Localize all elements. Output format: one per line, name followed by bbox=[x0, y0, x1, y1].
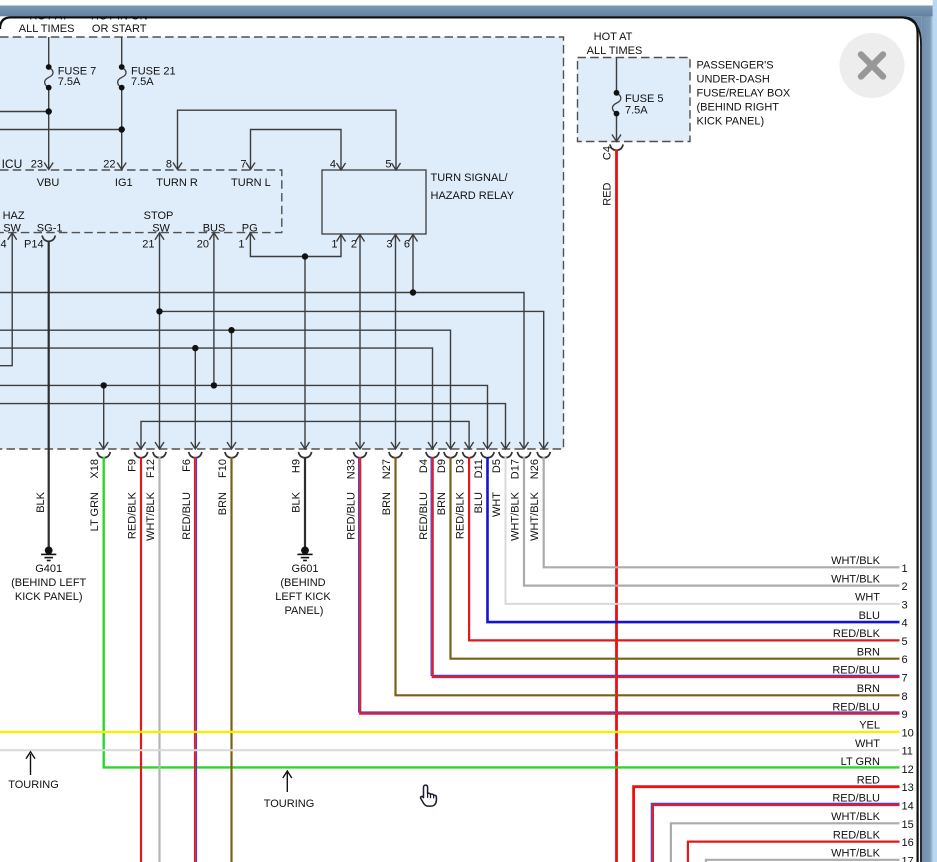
svg-text:BRN: BRN bbox=[857, 683, 880, 695]
svg-text:16: 16 bbox=[902, 837, 914, 849]
svg-text:LT GRN: LT GRN bbox=[841, 756, 880, 768]
wire relay pin6 down to bus A bbox=[412, 235, 414, 293]
connector F10 bbox=[225, 452, 238, 458]
wire X18 LT GRN to row 12 bbox=[104, 457, 900, 767]
node BUS/bus E bbox=[211, 382, 217, 388]
svg-text:SW: SW bbox=[3, 222, 21, 234]
wire SG-1 BLK to G401 bbox=[48, 241, 50, 548]
svg-text:SW: SW bbox=[152, 222, 170, 234]
connector D3 bbox=[463, 452, 476, 458]
arrow F6 bbox=[191, 442, 200, 449]
arrow pin22 bbox=[117, 163, 126, 170]
svg-text:ICU: ICU bbox=[2, 157, 23, 171]
svg-text:D9: D9 bbox=[436, 459, 448, 473]
ICU connector dashed box (inner) bbox=[0, 170, 282, 233]
svg-text:PG: PG bbox=[242, 222, 258, 234]
wire F10 drop bbox=[231, 330, 233, 448]
wire F9 RED/BLK bbox=[140, 457, 142, 862]
svg-text:21: 21 bbox=[142, 239, 154, 251]
wire TURN R pin8 to relay pin5 bbox=[178, 110, 397, 169]
svg-text:HOT AT: HOT AT bbox=[594, 31, 633, 43]
svg-text:4: 4 bbox=[1, 239, 7, 251]
svg-text:BLK: BLK bbox=[291, 491, 303, 512]
top blue-grey band bbox=[0, 6, 933, 17]
arrow pin23 bbox=[44, 163, 53, 170]
connector D11 bbox=[481, 452, 494, 458]
wire D3 RED/BLK to row 5 bbox=[469, 457, 899, 640]
wire fuse21 feed: HOT IN ON OR START down to pin 22 bbox=[121, 37, 123, 65]
svg-text:KICK PANEL): KICK PANEL) bbox=[15, 591, 83, 603]
svg-text:D11: D11 bbox=[473, 459, 485, 478]
svg-text:WHT/BLK: WHT/BLK bbox=[831, 848, 881, 860]
svg-text:15: 15 bbox=[902, 819, 914, 831]
right-side row labels and numbers bbox=[831, 555, 914, 862]
svg-text:7: 7 bbox=[240, 158, 246, 170]
arrow D3 bbox=[465, 442, 474, 449]
label TOURING (left) bbox=[8, 752, 59, 791]
grey internal wires bbox=[0, 37, 617, 448]
svg-text:WHT/BLK: WHT/BLK bbox=[831, 573, 881, 585]
svg-text:OR START: OR START bbox=[92, 23, 147, 35]
svg-text:WHT: WHT bbox=[855, 738, 880, 750]
connector D9 bbox=[444, 452, 457, 458]
svg-text:WHT: WHT bbox=[491, 492, 503, 517]
svg-text:RED: RED bbox=[857, 774, 880, 786]
arrow N26 bbox=[539, 442, 548, 449]
arrow D5 bbox=[501, 442, 510, 449]
wire row 14 RED/BLU bbox=[651, 803, 899, 862]
wire F6 drop bbox=[194, 348, 196, 448]
connector D4 bbox=[426, 452, 439, 458]
arrow pin7 bbox=[246, 163, 255, 170]
svg-text:WHT/BLK: WHT/BLK bbox=[831, 811, 881, 823]
wire row 15 WHT/BLK bbox=[671, 823, 900, 862]
node STOP SW/bus B bbox=[156, 308, 162, 314]
svg-text:17: 17 bbox=[902, 855, 914, 862]
ICU module dashed border bbox=[0, 37, 564, 449]
blue-grey corner patch (between outer page edge and band/column) bbox=[902, 16, 922, 46]
svg-text:WHT/BLK: WHT/BLK bbox=[529, 491, 541, 541]
svg-text:1: 1 bbox=[238, 239, 244, 251]
svg-text:20: 20 bbox=[197, 239, 209, 251]
wire relay pin3 to N27 bbox=[395, 235, 397, 449]
mouse cursor (hand pointer) bbox=[421, 785, 437, 806]
svg-text:LT GRN: LT GRN bbox=[89, 492, 101, 531]
svg-text:N33: N33 bbox=[346, 459, 358, 479]
svg-text:WHT/BLK: WHT/BLK bbox=[510, 491, 522, 541]
svg-text:D17: D17 bbox=[510, 459, 522, 479]
svg-text:KICK PANEL): KICK PANEL) bbox=[697, 116, 765, 128]
svg-text:BLU: BLU bbox=[859, 610, 880, 622]
svg-text:22: 22 bbox=[103, 158, 115, 170]
arrow relay pin2 (up) bbox=[356, 235, 365, 242]
node fuse7/branch bbox=[46, 108, 52, 114]
svg-text:BRN: BRN bbox=[381, 492, 393, 515]
arrow D9 bbox=[446, 442, 455, 449]
svg-text:IG1: IG1 bbox=[115, 177, 133, 189]
svg-text:2: 2 bbox=[351, 239, 357, 251]
svg-text:X18: X18 bbox=[89, 459, 101, 479]
svg-text:RED/BLU: RED/BLU bbox=[832, 665, 880, 677]
wire D17 WHT/BLK to row 2 bbox=[524, 457, 900, 586]
svg-text:SG-1: SG-1 bbox=[37, 222, 63, 234]
svg-text:(BEHIND LEFT: (BEHIND LEFT bbox=[11, 577, 86, 589]
node F10/bus C bbox=[228, 327, 234, 333]
svg-text:TURN L: TURN L bbox=[231, 177, 271, 189]
svg-text:WHT/BLK: WHT/BLK bbox=[831, 555, 881, 567]
arrow D17 bbox=[520, 442, 529, 449]
svg-text:3: 3 bbox=[386, 239, 392, 251]
arrow pin8 bbox=[173, 163, 182, 170]
svg-text:5: 5 bbox=[385, 158, 391, 170]
svg-text:BRN: BRN bbox=[436, 492, 448, 515]
svg-text:4: 4 bbox=[902, 618, 908, 630]
svg-text:HAZARD RELAY: HAZARD RELAY bbox=[431, 190, 515, 202]
wire bus C y330.2 to D9 bbox=[0, 330, 451, 448]
svg-text:BLK: BLK bbox=[35, 491, 47, 512]
svg-text:F6: F6 bbox=[181, 459, 193, 472]
wire relay pin2 to N33 bbox=[359, 235, 361, 449]
fuse F7 symbol bbox=[45, 67, 53, 87]
svg-text:TOURING: TOURING bbox=[264, 798, 315, 810]
node F6/bus D bbox=[192, 345, 198, 351]
svg-text:D4: D4 bbox=[418, 459, 430, 473]
svg-text:UNDER-DASH: UNDER-DASH bbox=[697, 74, 770, 86]
svg-text:WHT/BLK: WHT/BLK bbox=[145, 491, 157, 541]
svg-text:ALL TIMES: ALL TIMES bbox=[19, 23, 75, 35]
node pin6/bus A bbox=[410, 289, 416, 295]
arrow N27 bbox=[391, 442, 400, 449]
wire F10 BRN bbox=[230, 457, 232, 862]
svg-text:RED/BLU: RED/BLU bbox=[832, 793, 880, 805]
arrow D11 bbox=[483, 442, 492, 449]
svg-text:7: 7 bbox=[902, 673, 908, 685]
wire N26 WHT/BLK to row 1 bbox=[544, 457, 900, 567]
svg-text:HAZ: HAZ bbox=[3, 210, 25, 222]
svg-text:(BEHIND: (BEHIND bbox=[280, 577, 325, 589]
svg-text:STOP: STOP bbox=[144, 210, 174, 222]
arrow HAZ SW pin4 (up) bbox=[8, 233, 17, 240]
connector cups at box bottom bbox=[42, 144, 623, 457]
arrow relay pin5 bbox=[392, 163, 401, 170]
junction dots bbox=[46, 108, 417, 388]
wire bus G y421.4: F9 to D3 bbox=[141, 421, 469, 448]
node X18/bus E bbox=[101, 382, 107, 388]
connector H9 bbox=[298, 452, 311, 458]
ground G401 bbox=[11, 547, 86, 603]
svg-text:FUSE/RELAY BOX: FUSE/RELAY BOX bbox=[697, 88, 791, 100]
wire row 16 RED/BLK bbox=[688, 842, 900, 862]
svg-text:23: 23 bbox=[31, 158, 43, 170]
wire fuse5 feed bbox=[616, 58, 618, 92]
svg-text:PASSENGER'S: PASSENGER'S bbox=[697, 60, 774, 72]
svg-text:RED/BLK: RED/BLK bbox=[455, 491, 467, 539]
arrow STOP SW pin21 (up) bbox=[155, 233, 164, 240]
svg-text:RED/BLU: RED/BLU bbox=[181, 492, 193, 540]
wire bus F y403.6 to D5 bbox=[0, 404, 506, 448]
svg-text:BRN: BRN bbox=[857, 646, 880, 658]
svg-text:(BEHIND RIGHT: (BEHIND RIGHT bbox=[697, 102, 780, 114]
svg-text:8: 8 bbox=[166, 158, 172, 170]
svg-text:5: 5 bbox=[902, 636, 908, 648]
wire N27 BRN to row 8 bbox=[396, 457, 900, 695]
labels: power feeds bbox=[19, 11, 791, 128]
wire bus D y348.1 to D4 bbox=[0, 348, 433, 448]
svg-text:TOURING: TOURING bbox=[8, 779, 59, 791]
wire HAZ SW pin4 exits left bbox=[0, 233, 12, 366]
svg-text:7.5A: 7.5A bbox=[625, 105, 648, 117]
connector F9 bbox=[134, 452, 147, 458]
wire F12 WHT/BLK bbox=[158, 457, 160, 862]
wire branch left at y111.5 bbox=[0, 111, 49, 113]
node fuse21/branch bbox=[119, 126, 125, 132]
wire X18 drop bbox=[103, 385, 105, 448]
wire row 17 WHT/BLK bbox=[706, 860, 900, 862]
svg-text:11: 11 bbox=[902, 746, 913, 758]
wire fuse7 feed: HOT AT ALL TIMES down to pin 23 bbox=[48, 37, 50, 65]
svg-text:G401: G401 bbox=[35, 563, 62, 575]
svg-text:BRN: BRN bbox=[217, 492, 229, 515]
wire D4 RED/BLU to row 7 bbox=[431, 457, 899, 675]
connector N26 bbox=[537, 452, 550, 458]
page second edge (paper curl) bbox=[904, 18, 921, 862]
svg-text:PANEL): PANEL) bbox=[285, 605, 324, 617]
svg-text:RED/BLU: RED/BLU bbox=[346, 492, 358, 540]
connector N27 bbox=[389, 452, 402, 458]
svg-text:H9: H9 bbox=[291, 459, 303, 473]
wire D9 BRN to row 6 bbox=[451, 457, 900, 659]
wire F6 RED/BLU bbox=[194, 457, 196, 862]
svg-text:RED/BLU: RED/BLU bbox=[418, 492, 430, 540]
svg-text:VBU: VBU bbox=[37, 177, 60, 189]
svg-text:RED/BLU: RED/BLU bbox=[832, 701, 880, 713]
wire F12 drop bbox=[159, 311, 161, 448]
wire bus A y292.5 to D17 bbox=[0, 293, 524, 449]
svg-text:4: 4 bbox=[330, 158, 336, 170]
svg-text:G601: G601 bbox=[292, 563, 319, 575]
connector F12 bbox=[153, 452, 166, 458]
arrow relay pin1 (up) bbox=[337, 235, 346, 242]
fuse F5 symbol bbox=[612, 93, 620, 113]
connector C4 bbox=[610, 144, 623, 150]
arrow BUS pin20 (up) bbox=[209, 233, 218, 240]
wire BUS pin20 drop bbox=[213, 233, 215, 385]
svg-text:TURN R: TURN R bbox=[156, 177, 198, 189]
labels: ICU connector bbox=[1, 157, 411, 251]
arrow fuse5 out bbox=[612, 135, 621, 142]
svg-text:F10: F10 bbox=[217, 459, 229, 478]
arrow relay pin6 (up) bbox=[409, 235, 418, 242]
ground G601 bbox=[275, 547, 331, 617]
svg-text:3: 3 bbox=[902, 599, 908, 611]
top white strip bbox=[0, 0, 933, 6]
right blue-grey column bbox=[922, 6, 933, 862]
wire D11 BLU to row 4 bbox=[488, 457, 900, 622]
svg-text:12: 12 bbox=[902, 764, 914, 776]
connector P14 / SG-1 bbox=[42, 236, 55, 242]
svg-text:N26: N26 bbox=[529, 459, 541, 479]
wire H9 drop from PG node bbox=[304, 257, 306, 449]
svg-text:RED: RED bbox=[602, 182, 614, 205]
svg-text:RED/BLK: RED/BLK bbox=[833, 829, 881, 841]
arrow D4 bbox=[428, 442, 437, 449]
svg-text:7.5A: 7.5A bbox=[131, 76, 154, 88]
wire bus E y385.4 to D11 bbox=[0, 385, 488, 448]
wire TURN L pin7 to relay pin4 bbox=[251, 130, 342, 170]
label TOURING (right) bbox=[264, 771, 315, 810]
wire row 11 WHT bbox=[0, 749, 900, 751]
svg-text:TURN SIGNAL/: TURN SIGNAL/ bbox=[431, 172, 509, 184]
svg-text:N27: N27 bbox=[381, 459, 393, 479]
relay box: TURN SIGNAL/HAZARD RELAY bbox=[322, 170, 426, 234]
svg-text:6: 6 bbox=[404, 239, 410, 251]
connector X18 bbox=[97, 452, 110, 458]
arrow N33 bbox=[356, 442, 365, 449]
svg-text:1: 1 bbox=[902, 563, 908, 575]
node PG/H9 bbox=[302, 253, 308, 259]
wire row 13 RED bbox=[634, 787, 900, 862]
connector F6 bbox=[189, 452, 202, 458]
wire D5 WHT to row 3 bbox=[506, 457, 900, 604]
svg-text:FUSE 5: FUSE 5 bbox=[625, 93, 664, 105]
svg-text:RED/BLK: RED/BLK bbox=[833, 628, 881, 640]
fuse F21 symbol bbox=[118, 67, 126, 87]
colored harness wires bbox=[0, 150, 900, 862]
wire PG pin1 to relay pin1 bbox=[250, 233, 341, 257]
svg-text:D3: D3 bbox=[455, 459, 467, 473]
connector N33 bbox=[353, 452, 366, 458]
wire N33 RED/BLU to row 9 bbox=[359, 457, 900, 712]
svg-text:9: 9 bbox=[902, 709, 908, 721]
arrow F12 bbox=[155, 442, 164, 449]
svg-text:14: 14 bbox=[902, 801, 914, 813]
connector D5 bbox=[499, 452, 512, 458]
rotated connector labels bbox=[35, 146, 613, 541]
svg-text:C4: C4 bbox=[602, 146, 614, 160]
svg-text:2: 2 bbox=[902, 581, 908, 593]
right light-blue strip bbox=[933, 0, 937, 862]
svg-text:10: 10 bbox=[902, 727, 914, 739]
arrow F9 bbox=[137, 442, 146, 449]
svg-text:1: 1 bbox=[331, 239, 337, 251]
svg-text:F9: F9 bbox=[127, 459, 139, 472]
wire H9 BLK to G601 bbox=[304, 457, 306, 547]
fuse box dashed border bbox=[578, 58, 691, 142]
svg-text:ALL TIMES: ALL TIMES bbox=[587, 45, 643, 57]
arrow PG pin1 (up) bbox=[246, 233, 255, 240]
connector D17 bbox=[517, 452, 530, 458]
svg-text:LEFT KICK: LEFT KICK bbox=[275, 591, 331, 603]
svg-text:WHT: WHT bbox=[855, 592, 880, 604]
wire row 10 YEL bbox=[0, 731, 900, 733]
arrow relay pin4 bbox=[337, 163, 346, 170]
arrow X18 bbox=[99, 442, 108, 449]
arrow H9 bbox=[301, 442, 310, 449]
svg-text:BLU: BLU bbox=[473, 492, 485, 513]
close button bbox=[840, 33, 905, 98]
svg-text:13: 13 bbox=[902, 782, 914, 794]
svg-text:8: 8 bbox=[902, 691, 908, 703]
svg-text:6: 6 bbox=[902, 654, 908, 666]
svg-text:RED/BLK: RED/BLK bbox=[127, 491, 139, 539]
svg-text:BUS: BUS bbox=[203, 222, 226, 234]
wire bus B y311.4: STOP SW to N26 bbox=[160, 233, 544, 448]
arrow relay pin3 (up) bbox=[391, 235, 400, 242]
svg-text:F12: F12 bbox=[145, 459, 157, 478]
svg-text:P14: P14 bbox=[24, 239, 44, 251]
wire branch left at y129.5 bbox=[0, 129, 122, 131]
svg-text:YEL: YEL bbox=[859, 720, 880, 732]
fuse/relay box fill bbox=[578, 58, 691, 142]
ICU module box (light blue fill) bbox=[0, 37, 564, 449]
arrow F10 bbox=[227, 442, 236, 449]
arrows (down chevrons at ICU top / relay top / box bottom) bbox=[8, 135, 621, 450]
svg-text:7.5A: 7.5A bbox=[58, 76, 81, 88]
wire C4 RED main feed bbox=[615, 150, 618, 862]
svg-text:D5: D5 bbox=[491, 459, 503, 473]
